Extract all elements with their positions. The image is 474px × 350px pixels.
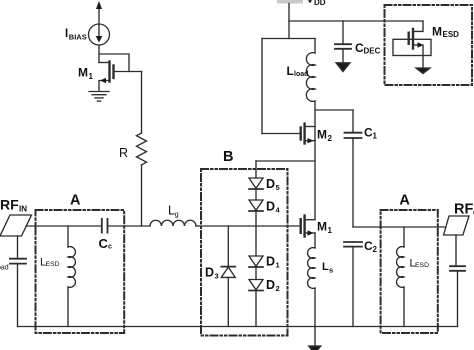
- svg-text:M: M: [78, 66, 88, 80]
- svg-text:4: 4: [276, 206, 281, 215]
- svg-text:L: L: [287, 64, 294, 78]
- svg-text:D: D: [266, 255, 275, 269]
- svg-text:ESD: ESD: [46, 261, 60, 268]
- svg-text:c: c: [108, 244, 112, 251]
- svg-text:1: 1: [373, 132, 378, 141]
- svg-text:2: 2: [328, 134, 333, 143]
- svg-text:BIAS: BIAS: [69, 33, 87, 42]
- svg-text:2: 2: [276, 284, 280, 293]
- svg-text:1: 1: [276, 261, 280, 270]
- svg-text:B: B: [223, 149, 233, 165]
- svg-text:RF: RF: [0, 197, 19, 213]
- svg-text:A: A: [399, 193, 410, 209]
- svg-text:load: load: [294, 71, 308, 78]
- svg-text:A: A: [70, 193, 81, 209]
- svg-text:DD: DD: [314, 0, 326, 7]
- svg-text:D: D: [266, 278, 275, 292]
- svg-text:C: C: [99, 236, 109, 251]
- svg-text:DEC: DEC: [364, 47, 381, 56]
- svg-text:L: L: [322, 261, 329, 273]
- svg-text:M: M: [317, 220, 327, 234]
- svg-text:1: 1: [89, 72, 94, 81]
- svg-text:2: 2: [373, 245, 378, 254]
- svg-text:I: I: [65, 28, 68, 40]
- svg-text:M: M: [432, 25, 442, 39]
- svg-text:D: D: [266, 200, 275, 214]
- svg-text:D: D: [266, 177, 275, 191]
- svg-text:s: s: [329, 266, 333, 275]
- svg-text:pad: pad: [0, 265, 9, 272]
- svg-text:5: 5: [276, 183, 280, 192]
- svg-text:M: M: [317, 128, 327, 142]
- svg-text:ESD: ESD: [415, 262, 429, 269]
- svg-text:D: D: [205, 266, 214, 280]
- svg-text:V: V: [306, 0, 314, 6]
- svg-text:g: g: [175, 210, 179, 219]
- svg-text:1: 1: [328, 226, 333, 235]
- svg-text:3: 3: [215, 272, 219, 281]
- svg-text:ESD: ESD: [443, 30, 460, 39]
- svg-text:RF: RF: [454, 202, 473, 218]
- svg-text:R: R: [119, 146, 128, 160]
- svg-text:IN: IN: [19, 205, 27, 214]
